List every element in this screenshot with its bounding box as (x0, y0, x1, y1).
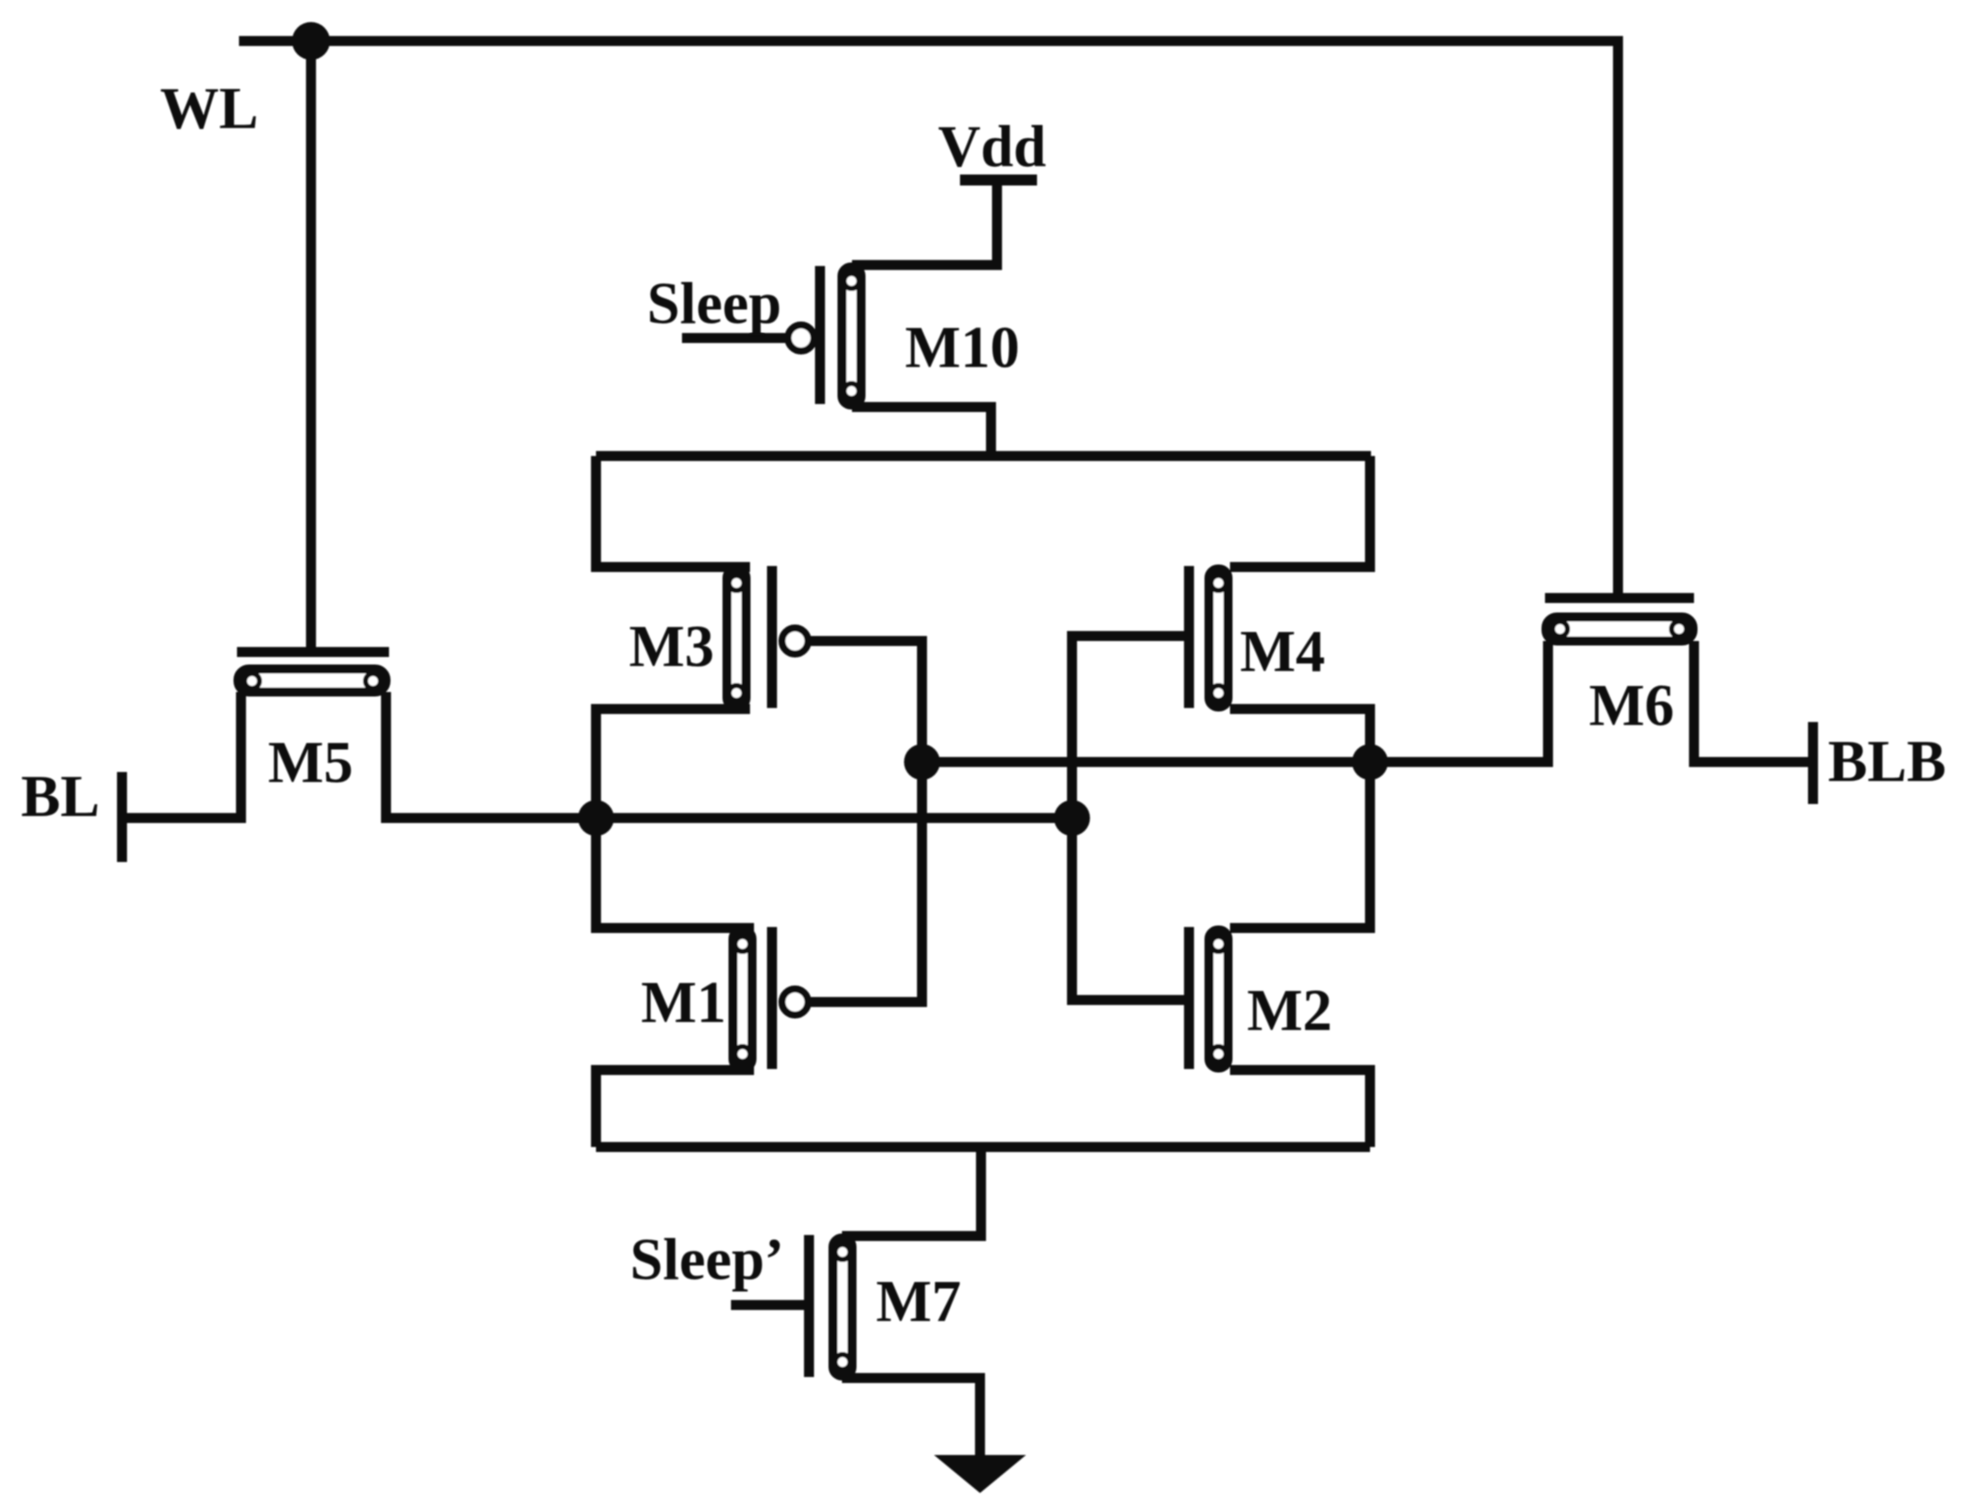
svg-text:M2: M2 (1247, 977, 1332, 1043)
svg-text:Sleep’: Sleep’ (630, 1226, 784, 1292)
transistor M7 contact ring top (835, 1245, 850, 1260)
transistor M4 gate bar (1184, 566, 1194, 708)
transistor M5 contact ring right (366, 674, 381, 689)
wire M7 gate (Sleep' input) (731, 1300, 809, 1310)
transistor M7 channel (833, 1238, 852, 1376)
wire inverter ground rail (596, 1142, 1370, 1152)
wire M10 drain to inverter Vdd rail (852, 407, 991, 456)
wire M3 source from Vdd rail (596, 456, 750, 567)
transistor M1 gate bubble (782, 989, 808, 1015)
transistor M4 contact ring bottom (1211, 686, 1226, 701)
wire WL top horizontal and right vertical to M6 gate (239, 41, 1618, 598)
wire M6 source leg to node QB (1360, 641, 1548, 762)
svg-text:M6: M6 (1589, 672, 1674, 738)
svg-text:M7: M7 (876, 1268, 961, 1334)
transistor M1 contact ring bottom (735, 1047, 750, 1062)
transistor M6 channel (1546, 617, 1693, 641)
transistor M3 contact ring bottom (729, 686, 744, 701)
wire Vdd to M10 source (852, 180, 997, 265)
terminal BLB bar (1808, 722, 1818, 804)
transistor M1 gate bar (767, 927, 777, 1069)
wire inverter Vdd rail (596, 451, 1371, 461)
svg-text:Vdd: Vdd (938, 113, 1046, 179)
transistor M2 contact ring bottom (1211, 1047, 1226, 1062)
transistor M2 channel (1209, 930, 1228, 1068)
transistor M10 gate bar (815, 266, 825, 404)
wire M2 drain to node QB column (1230, 762, 1370, 928)
transistor M6 contact ring right (1672, 622, 1687, 637)
node QB dot at M3 gate column (904, 744, 940, 780)
node WL junction dot (292, 22, 330, 60)
transistor M3 contact ring top (729, 576, 744, 591)
wire M5 drain leg joining node Q (386, 692, 600, 818)
svg-text:M4: M4 (1240, 618, 1325, 684)
wire M4 drain to node QB (1230, 709, 1370, 762)
svg-text:Sleep: Sleep (647, 270, 781, 336)
wire M7 source to ground (842, 1378, 980, 1458)
transistor M1 channel (733, 930, 752, 1068)
svg-text:BLB: BLB (1828, 728, 1946, 794)
transistor M10 gate wire (Sleep input) (682, 333, 787, 343)
node Q dot at M3 drain (578, 800, 614, 836)
wire M3 gate to QB and M1 gate column (808, 641, 922, 1002)
transistor M5 gate bar (237, 647, 389, 657)
transistor M10 contact ring top (844, 274, 859, 289)
wire M6 drain leg to BLB (1694, 641, 1813, 762)
wire M7 drain from ground rail (842, 1147, 981, 1236)
transistor M6 contact ring left (1553, 622, 1568, 637)
transistor M5 contact ring left (245, 674, 260, 689)
transistor M7 gate bar (804, 1235, 814, 1377)
wire WL left vertical to M5 gate (306, 41, 316, 652)
node Q dot at M4 gate column (1054, 800, 1090, 836)
transistor M3 gate bubble (782, 628, 808, 654)
power Vdd bar (960, 175, 1037, 186)
ground symbol arrow (934, 1455, 1026, 1493)
wire M1 drain from node Q column (596, 923, 754, 933)
wire node Q horizontal (386, 813, 1072, 823)
wire M5 source leg to BL (122, 692, 241, 818)
transistor M6 gate bar (1545, 593, 1694, 603)
node QB dot at M4 drain (1352, 744, 1388, 780)
transistor M2 contact ring top (1211, 937, 1226, 952)
wire M2 source to ground rail (1230, 1070, 1370, 1147)
transistor M3 channel (727, 569, 746, 707)
transistor M10 gate bubble (788, 325, 814, 351)
transistor M4 channel (1209, 569, 1228, 707)
svg-text:M3: M3 (629, 613, 714, 679)
wire M3 drain to node Q column (596, 709, 750, 933)
terminal BL bar (117, 772, 127, 862)
wire node QB horizontal (922, 757, 1548, 767)
svg-text:M1: M1 (641, 969, 726, 1035)
transistor M7 contact ring bottom (835, 1355, 850, 1370)
transistor M1 contact ring top (735, 937, 750, 952)
svg-text:M10: M10 (905, 314, 1020, 380)
wire M1 source to ground rail (596, 1070, 754, 1147)
transistor M4 contact ring top (1211, 576, 1226, 591)
svg-text:BL: BL (21, 763, 100, 829)
transistor M3 gate bar (767, 566, 777, 708)
svg-text:M5: M5 (268, 729, 353, 795)
svg-text:WL: WL (160, 75, 258, 141)
transistor M10 channel (842, 267, 861, 405)
wire M4 gate from Q column and M2 gate column (1072, 636, 1189, 1000)
wire M4 source from Vdd rail (1230, 456, 1370, 567)
transistor M5 channel (238, 669, 386, 692)
transistor M2 gate bar (1184, 927, 1194, 1069)
transistor M10 contact ring bottom (844, 384, 859, 399)
